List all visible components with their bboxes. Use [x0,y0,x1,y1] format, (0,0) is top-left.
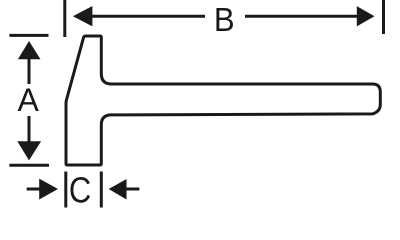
dim A line lower segment [28,116,31,142]
label B [214,1,235,38]
svg-text:A: A [18,82,40,118]
dim B right extension tick [382,0,385,34]
dim A bottom tick [9,164,49,167]
dim C left arrowhead [39,179,58,200]
dim B left extension tick [63,0,66,37]
dim B left arrowhead [73,6,93,26]
svg-text:B: B [214,1,235,38]
label C [69,171,91,211]
hammer outline [66,36,380,165]
dim C right extension tick [100,172,103,208]
dim B right arrowhead [357,6,375,26]
dim C left arrow shaft [27,188,40,191]
dim B line right segment [245,15,357,18]
svg-text:C: C [69,171,91,209]
dim C right arrow shaft [126,188,139,191]
dim A line upper segment [28,59,31,84]
dim A up arrowhead [18,41,41,59]
dim C left extension tick [64,172,67,208]
dim A top tick [9,34,48,37]
dim C right arrowhead [109,179,127,200]
dim A down arrowhead [17,141,41,160]
dim B line left segment [92,15,205,18]
